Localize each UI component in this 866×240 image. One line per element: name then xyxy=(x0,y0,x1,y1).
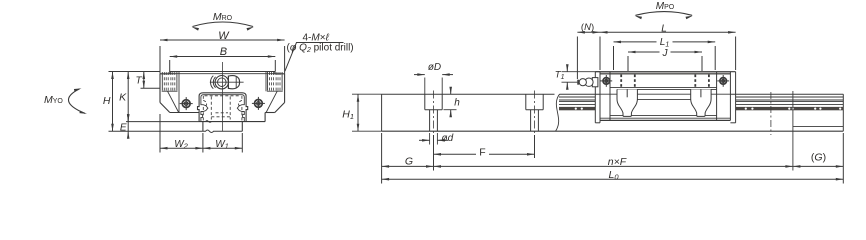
tapped holes M left (hidden) xyxy=(161,72,163,91)
seal plate left xyxy=(594,72,596,123)
hidden rail side left upper xyxy=(202,96,204,100)
block bottom seal line xyxy=(600,117,730,119)
block side right edge xyxy=(729,72,731,121)
svg-text:h: h xyxy=(454,98,460,109)
ext line L1 left xyxy=(613,46,615,70)
rail bottom line xyxy=(382,130,844,132)
nipple horizontal centerline xyxy=(210,81,244,83)
rail top under block xyxy=(600,93,730,95)
svg-text:øD: øD xyxy=(428,62,441,73)
svg-text:E: E xyxy=(120,123,127,134)
hidden rail side right lower xyxy=(241,107,243,122)
svg-text:(N): (N) xyxy=(581,22,594,33)
svg-text:n×F: n×F xyxy=(608,156,627,168)
hidden rail groove right xyxy=(239,100,242,107)
tapped hole side 4 xyxy=(708,75,710,89)
ext line od left xyxy=(429,133,431,145)
dim W2 line xyxy=(160,147,203,149)
label J gap xyxy=(660,48,671,57)
seal plate right xyxy=(735,72,737,123)
end cap pocket line right xyxy=(265,72,267,92)
ext line T bottom xyxy=(141,87,161,89)
dim L line xyxy=(600,31,736,33)
tapped hole side 2 xyxy=(634,75,636,89)
ext line N left xyxy=(576,37,578,80)
grease nipple tip front xyxy=(228,76,239,89)
block right step vertical xyxy=(264,113,266,122)
ext line od right xyxy=(436,133,438,145)
dim L0 line xyxy=(382,178,844,180)
ext line L1 right xyxy=(714,46,716,70)
hidden retainer line xyxy=(211,116,230,118)
block side top edge xyxy=(595,71,735,73)
ext line J right xyxy=(701,56,703,71)
rail end secondary line xyxy=(793,126,843,128)
ext line hole1 bottom xyxy=(433,135,435,171)
svg-text:K: K xyxy=(119,92,127,104)
svg-text:T: T xyxy=(136,76,143,87)
ext line L left xyxy=(599,37,601,71)
block left chamfer xyxy=(160,103,170,113)
leader line 4-M xyxy=(285,43,344,72)
ext line T1 top xyxy=(562,71,599,73)
label L1 gap xyxy=(657,37,673,46)
rail grooves right of block xyxy=(736,96,844,98)
ext line block top left xyxy=(109,71,161,73)
ext line hole2 bottom xyxy=(534,135,536,158)
dim E line xyxy=(127,119,129,135)
hidden ball track right xyxy=(229,97,231,120)
rail top line left section xyxy=(382,93,555,95)
block right chamfer xyxy=(275,103,285,113)
svg-text:L: L xyxy=(661,23,667,34)
dim N line xyxy=(577,31,600,33)
svg-text:F: F xyxy=(479,147,485,159)
block side body fill xyxy=(600,72,730,121)
ext line L right xyxy=(735,37,737,71)
dim oD line xyxy=(414,74,425,76)
hidden ball track left xyxy=(210,97,212,120)
svg-text:B: B xyxy=(220,46,227,58)
rail grooves left of block xyxy=(559,96,595,98)
dim H line xyxy=(112,72,114,132)
ext line rail left bottom xyxy=(381,133,383,184)
block left edge xyxy=(159,74,161,103)
dim J line xyxy=(628,51,702,53)
block right edge xyxy=(284,74,286,103)
svg-text:(φ Q2 pilot drill): (φ Q2 pilot drill) xyxy=(287,43,354,55)
block lower retainer line xyxy=(610,115,717,117)
block bottom right flange xyxy=(265,112,275,114)
rail groove under block xyxy=(637,99,690,101)
moment arc M_RO xyxy=(193,22,254,27)
dim H1 line xyxy=(357,94,359,131)
moment arc M_YO xyxy=(68,89,85,114)
end cap screw side right xyxy=(720,78,727,85)
end cap diagonal right xyxy=(266,91,277,112)
dim od line xyxy=(419,139,430,141)
tapped hole side 3 xyxy=(694,75,696,89)
dim (G) line xyxy=(793,165,843,167)
end plate right boundary xyxy=(716,72,718,121)
svg-text:ød: ød xyxy=(442,133,454,144)
dim nxF line xyxy=(434,165,793,167)
ext line T1 top2 xyxy=(562,71,601,73)
block top edge xyxy=(160,72,285,74)
dim F line xyxy=(434,153,535,155)
tapped hole side 1 xyxy=(620,75,622,89)
tapped holes M right (hidden) xyxy=(267,72,269,91)
end plate left boundary xyxy=(609,72,611,121)
ext line oD right xyxy=(441,78,443,95)
dim h line xyxy=(450,88,452,94)
ext line rail bottom left xyxy=(109,130,203,132)
rail bolt hole 1 xyxy=(424,94,426,110)
front view vertical centerline xyxy=(221,62,223,131)
hidden rail side left lower xyxy=(202,107,204,122)
svg-text:W: W xyxy=(218,30,230,42)
ext line rail right lower xyxy=(241,133,243,153)
rail left edge front xyxy=(202,122,204,132)
dim W extension lines xyxy=(159,46,161,74)
block side left edge xyxy=(599,72,601,121)
dim T1 line xyxy=(566,66,568,72)
rail bottom with break xyxy=(203,130,242,133)
ext line oD left xyxy=(424,78,426,95)
svg-text:W2: W2 xyxy=(174,139,188,151)
svg-text:W1: W1 xyxy=(215,139,229,151)
svg-text:H: H xyxy=(103,95,111,107)
ext line T1 bottom xyxy=(562,81,578,83)
ext line rail right bottom xyxy=(842,133,844,184)
ext line J left xyxy=(627,56,629,71)
block side top band xyxy=(600,73,730,75)
hidden rail top xyxy=(205,95,241,97)
end cap diagonal left xyxy=(168,91,179,112)
ext line H1 top xyxy=(352,93,382,95)
hidden rail side right upper xyxy=(241,96,243,100)
label F gap xyxy=(476,150,489,159)
ext line rail left lower xyxy=(202,133,204,153)
block bottom edge xyxy=(600,119,730,121)
ball return guide left xyxy=(617,89,637,116)
dim G line xyxy=(382,165,434,167)
rail bolt hole 2 xyxy=(525,94,527,110)
rail left end xyxy=(381,94,383,131)
ball return guide right xyxy=(691,89,711,116)
svg-text:G: G xyxy=(405,156,413,168)
svg-text:(G): (G) xyxy=(811,152,826,164)
dim W1 line xyxy=(203,147,242,149)
saddle outer contour xyxy=(198,93,248,122)
saddle inner contour xyxy=(201,95,244,122)
grease nipple side xyxy=(577,81,594,83)
hole centerline far right xyxy=(770,92,772,135)
block bottom line xyxy=(200,121,266,123)
ext line W2 left xyxy=(159,114,161,153)
dim T line xyxy=(143,72,145,89)
end cap screw side left xyxy=(603,78,610,85)
rail right edge front xyxy=(241,122,243,132)
hidden seal line xyxy=(216,112,229,114)
moment arc M_PO xyxy=(636,12,693,16)
ext line nxF right xyxy=(792,91,794,171)
rail top line right section xyxy=(560,93,844,95)
rail right end xyxy=(842,94,844,131)
hidden rail groove left xyxy=(203,100,206,107)
groove balls xyxy=(575,108,577,110)
dim L1 line xyxy=(614,41,716,43)
end cap screw left xyxy=(182,100,190,108)
end cap pocket line left xyxy=(178,72,180,113)
grease nipple body front xyxy=(215,76,228,89)
rail break line xyxy=(556,94,560,131)
block inner line U-top xyxy=(617,88,717,90)
dim K line xyxy=(127,72,129,122)
end cap top secondary line xyxy=(170,73,275,75)
ext line H1 bottom xyxy=(352,130,382,132)
dim W line xyxy=(160,39,285,41)
ext line h bottom xyxy=(444,109,457,111)
end cap screw right xyxy=(255,100,263,108)
block bottom left flange xyxy=(170,112,200,114)
svg-text:J: J xyxy=(662,48,669,59)
dim B extension lines xyxy=(169,60,171,72)
dim B line xyxy=(170,56,276,58)
block inner line upper xyxy=(610,86,717,88)
ext line block bottom xyxy=(126,121,200,123)
block bottom break marks xyxy=(206,121,212,123)
